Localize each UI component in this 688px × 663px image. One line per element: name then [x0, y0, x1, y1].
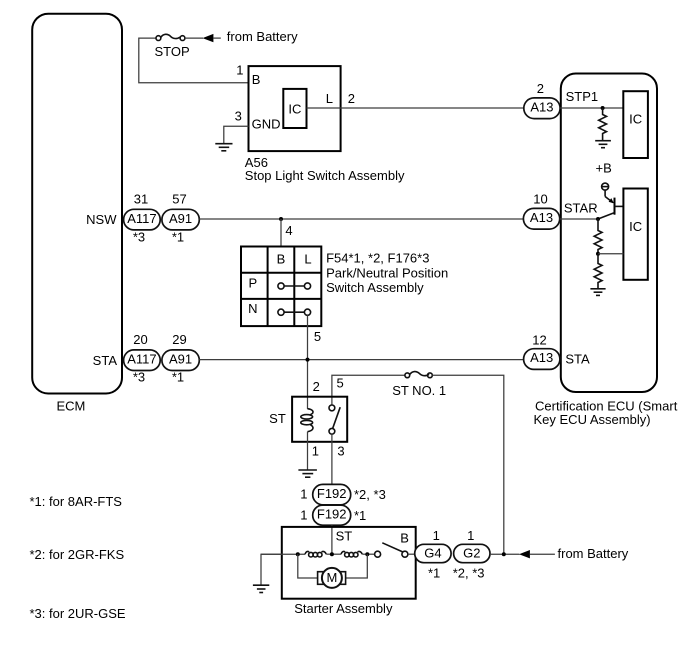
pin 20 label: [133, 332, 147, 347]
pin 12 label: [532, 333, 546, 348]
pin 31 label: [134, 191, 148, 206]
svg-text:*1: for 8AR-FTS: *1: for 8AR-FTS: [30, 494, 123, 509]
svg-text:G4: G4: [424, 546, 441, 561]
svg-text:A117: A117: [127, 211, 156, 226]
label *3 (STA): [133, 369, 145, 384]
pin label STAR: [564, 200, 598, 215]
relay switch contacts: [329, 405, 340, 434]
label L column: [304, 251, 311, 266]
connector A13 (STA): [524, 349, 560, 370]
ground (relay coil): [298, 470, 317, 477]
label *1 (NSW): [172, 229, 184, 244]
connector G2: [454, 544, 490, 562]
wire from STOP fuse down to stop light switch pin B: [139, 38, 249, 83]
wire relay coil pin1 to ground: [307, 432, 309, 470]
connector F192 (*1): [313, 505, 351, 525]
pin 57 label: [172, 191, 186, 206]
label *3 (NSW): [133, 229, 145, 244]
wire F192 to starter ST terminal: [331, 525, 333, 554]
wire pin 5 from switch down to relay pin 2 column: [307, 315, 309, 409]
label *1 (STA): [172, 369, 184, 384]
arrow from Battery (bottom): [519, 550, 555, 558]
contact P row: [278, 283, 311, 289]
label ST NO. 1: [392, 383, 446, 398]
connector A91 (STA): [162, 350, 199, 371]
svg-text:A117: A117: [127, 351, 156, 366]
svg-text:1: 1: [300, 487, 307, 502]
node junction battery feed: [502, 552, 506, 556]
label *1 (G4): [428, 566, 440, 581]
pin 10 label: [533, 191, 547, 206]
label A56: [245, 155, 268, 170]
label ST (starter): [336, 529, 353, 544]
svg-text:5: 5: [336, 375, 343, 390]
svg-text:F192: F192: [317, 507, 347, 522]
svg-text:1: 1: [467, 528, 474, 543]
node junction starter right: [365, 552, 369, 556]
label from Battery (bottom): [558, 546, 629, 561]
connector A117 (NSW): [124, 209, 161, 230]
pin 1 label (stop light switch B): [236, 63, 243, 78]
svg-text:ST NO. 1: ST NO. 1: [392, 383, 446, 398]
label B column: [277, 251, 286, 266]
svg-text:57: 57: [172, 191, 186, 206]
label *2, *3 (F192 upper): [354, 487, 386, 502]
svg-text:3: 3: [235, 109, 242, 124]
svg-text:*3: for 2UR-GSE: *3: for 2UR-GSE: [30, 606, 126, 621]
svg-text:F54*1, *2, F176*3: F54*1, *2, F176*3: [326, 251, 429, 266]
label Switch Assembly: [326, 280, 424, 295]
IC (STP1): [623, 91, 648, 158]
wire fuse to corner down to battery junction: [432, 375, 504, 554]
starter switch contacts: [375, 543, 408, 557]
svg-text:STOP: STOP: [155, 44, 190, 59]
transistor Q (PNP): [598, 190, 623, 219]
svg-text:*2, *3: *2, *3: [354, 487, 386, 502]
pin 3 label (GND): [235, 109, 242, 124]
ground (starter): [253, 585, 269, 592]
svg-text:5: 5: [314, 329, 321, 344]
pin label STA (ECU): [565, 351, 590, 366]
label Starter Assembly: [294, 601, 393, 616]
svg-text:Stop Light Switch Assembly: Stop Light Switch Assembly: [245, 168, 405, 183]
svg-text:2: 2: [313, 379, 320, 394]
wire starter left branch to motor: [298, 554, 318, 578]
svg-text:*3: *3: [133, 369, 145, 384]
pin label B: [252, 72, 261, 87]
svg-text:*2: for 2GR-FKS: *2: for 2GR-FKS: [30, 547, 125, 562]
label Certification ECU line 1: [535, 398, 678, 413]
svg-text:L: L: [326, 91, 333, 106]
stop light switch assembly A56 box: [249, 66, 341, 151]
connector A117 (STA): [124, 350, 161, 371]
label Park/Neutral Position: [326, 266, 448, 281]
wire fuse to from-Battery arrow: [185, 37, 203, 39]
svg-text:*3: *3: [133, 229, 145, 244]
resistor (STP1 pull-down): [599, 108, 607, 141]
fuse ST NO. 1: [405, 372, 432, 378]
node junction STAR: [596, 217, 600, 221]
node junction NSW/pin4: [279, 217, 283, 221]
connector F192 (*2,*3): [313, 484, 351, 504]
svg-text:GND: GND: [252, 117, 281, 132]
connector A13 (STAR): [523, 208, 559, 229]
ECM connector box: [32, 14, 122, 394]
wire STP1 inside ECU to IC: [560, 107, 623, 109]
wire G2 to battery arrow: [490, 553, 520, 555]
wire pin 4 down to park/neutral switch: [280, 219, 282, 247]
pin label L: [326, 91, 333, 106]
svg-text:ST: ST: [269, 411, 286, 426]
svg-text:STAR: STAR: [564, 200, 598, 215]
relay ST box: [292, 397, 347, 442]
svg-text:1: 1: [300, 508, 307, 523]
node junction starter left: [296, 552, 300, 556]
+B terminal: [602, 183, 609, 190]
wire between coils: [326, 553, 341, 555]
certification ECU box: [561, 74, 657, 393]
label P row: [248, 275, 257, 290]
svg-text:4: 4: [285, 223, 292, 238]
svg-text:STA: STA: [93, 353, 118, 368]
label Certification ECU line 2: [534, 412, 651, 427]
IC (STAR): [623, 189, 647, 280]
starter assembly box: [282, 527, 416, 599]
svg-text:1: 1: [433, 528, 440, 543]
note *3: [30, 606, 126, 621]
wire NSW to A13 STAR: [199, 218, 524, 220]
svg-text:Starter Assembly: Starter Assembly: [294, 601, 393, 616]
wire starter box to left ground: [261, 554, 282, 585]
IC inside stop light switch: [283, 89, 306, 128]
pin 2 label (A13 STP1): [348, 91, 355, 106]
svg-text:B: B: [277, 251, 286, 266]
starter hold-in coil: [341, 551, 362, 557]
svg-text:NSW: NSW: [86, 212, 117, 227]
label *2, *3 (G2): [453, 566, 485, 581]
svg-text:*1: *1: [172, 369, 184, 384]
svg-text:from Battery: from Battery: [227, 29, 298, 44]
svg-text:2: 2: [348, 91, 355, 106]
svg-text:G2: G2: [463, 546, 480, 561]
pin 5 label: [314, 329, 321, 344]
label STOP: [155, 44, 190, 59]
fuse STOP: [156, 34, 185, 40]
pin 1 label (F192 lower): [300, 508, 307, 523]
resistor (STAR lower): [594, 254, 602, 289]
svg-text:B: B: [400, 531, 409, 546]
node junction resistor divider: [596, 252, 600, 256]
relay pin 2 label: [313, 379, 320, 394]
svg-text:N: N: [248, 301, 257, 316]
note *1: [30, 494, 123, 509]
wire relay pin5 to ST NO.1 fuse and down to battery node: [332, 375, 405, 405]
svg-text:IC: IC: [629, 219, 642, 234]
wire starter B terminal to G4: [408, 553, 416, 555]
wire starter main bus left: [261, 553, 305, 555]
label STA (ECM): [93, 353, 118, 368]
label *1 (F192 lower): [354, 508, 366, 523]
svg-text:A91: A91: [169, 211, 192, 226]
wire divider node to IC: [598, 253, 623, 255]
svg-text:1: 1: [312, 443, 319, 458]
label ST (relay): [269, 411, 286, 426]
svg-text:from Battery: from Battery: [558, 546, 629, 561]
svg-text:12: 12: [532, 333, 546, 348]
svg-text:+B: +B: [596, 161, 612, 176]
svg-text:29: 29: [172, 332, 186, 347]
svg-text:Park/Neutral Position: Park/Neutral Position: [326, 266, 448, 281]
wire L output to A13 STP1: [307, 107, 524, 109]
pin 29 label: [172, 332, 186, 347]
ground (STAR divider): [590, 289, 605, 296]
node junction starter mid (ST input): [330, 552, 334, 556]
label N row: [248, 301, 257, 316]
relay pin 5 label: [336, 375, 343, 390]
relay pin 3 label: [337, 443, 344, 458]
wire starter right branch to motor: [346, 554, 368, 578]
label +B: [596, 161, 612, 176]
pin 1 label (F192 upper): [300, 487, 307, 502]
connector A13 (STP1): [524, 98, 560, 119]
pin 1 label (G4): [433, 528, 440, 543]
svg-text:ECM: ECM: [57, 399, 86, 414]
svg-text:F192: F192: [317, 486, 347, 501]
ground (STP1): [595, 141, 611, 148]
svg-text:31: 31: [134, 191, 148, 206]
svg-text:IC: IC: [288, 101, 301, 116]
pin label STP1: [566, 89, 599, 104]
svg-text:*1: *1: [354, 508, 366, 523]
svg-text:IC: IC: [629, 111, 642, 126]
node junction STA wire: [306, 358, 310, 362]
contact N row: [278, 309, 311, 315]
label B (starter): [400, 531, 409, 546]
relay pin 1 label: [312, 443, 319, 458]
svg-text:A91: A91: [169, 351, 192, 366]
relay coil: [301, 409, 313, 432]
svg-text:A13: A13: [530, 99, 553, 114]
label ECM: [57, 399, 86, 414]
connector A91 (NSW): [162, 209, 199, 230]
wire STAR inside ECU: [560, 218, 598, 220]
pin 4 label: [285, 223, 292, 238]
arrow from Battery (top): [203, 34, 221, 42]
svg-text:2: 2: [537, 81, 544, 96]
label NSW: [86, 212, 117, 227]
starter pull-in coil: [305, 551, 326, 557]
motor M: [318, 568, 346, 588]
label Stop Light Switch Assembly: [245, 168, 405, 183]
svg-text:3: 3: [337, 443, 344, 458]
svg-text:20: 20: [133, 332, 147, 347]
svg-text:Switch Assembly: Switch Assembly: [326, 280, 424, 295]
svg-text:A13: A13: [530, 210, 553, 225]
park/neutral position switch box: [241, 247, 321, 327]
svg-text:*2, *3: *2, *3: [453, 566, 485, 581]
wire relay pin 3 to F192: [331, 434, 333, 484]
wire coil to starter switch: [362, 553, 374, 555]
label F54*1, *2, F176*3: [326, 251, 429, 266]
svg-text:1: 1: [236, 63, 243, 78]
label from Battery (top): [227, 29, 298, 44]
ground (stop light switch): [215, 144, 232, 151]
svg-text:A13: A13: [530, 350, 553, 365]
svg-text:M: M: [326, 570, 337, 585]
resistor (STAR upper): [594, 219, 602, 254]
note *2: [30, 547, 125, 562]
wire GND to ground: [224, 126, 249, 143]
pin 1 label (G2): [467, 528, 474, 543]
svg-text:Key ECU Assembly): Key ECU Assembly): [534, 412, 651, 427]
svg-text:*1: *1: [428, 566, 440, 581]
svg-text:P: P: [248, 275, 257, 290]
svg-text:L: L: [304, 251, 311, 266]
svg-text:STA: STA: [565, 351, 590, 366]
pin 2 label (A13 STP1): [537, 81, 544, 96]
svg-text:STP1: STP1: [566, 89, 599, 104]
connector G4: [415, 544, 451, 562]
wire STA to A13 STA: [199, 359, 524, 361]
pin label GND: [252, 117, 281, 132]
node junction STP1: [601, 106, 605, 110]
svg-text:B: B: [252, 72, 261, 87]
svg-text:*1: *1: [172, 229, 184, 244]
svg-text:ST: ST: [336, 529, 353, 544]
svg-text:10: 10: [533, 191, 547, 206]
